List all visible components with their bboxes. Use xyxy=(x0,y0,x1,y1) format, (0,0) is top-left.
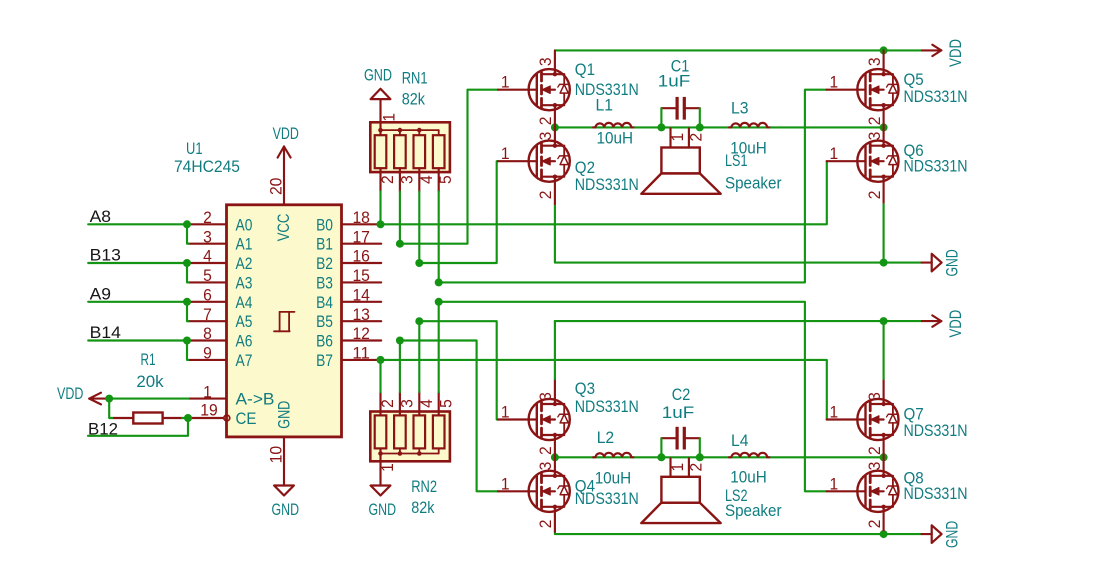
wire B7 net xyxy=(381,360,827,420)
junction node A8 xyxy=(183,220,191,228)
svg-text:3: 3 xyxy=(866,392,884,401)
svg-text:NDS331N: NDS331N xyxy=(904,422,968,440)
svg-text:VDD: VDD xyxy=(57,385,83,403)
svg-text:L1: L1 xyxy=(596,96,614,114)
wire C2 pin1 to rail xyxy=(660,438,662,457)
svg-text:10uH: 10uH xyxy=(595,470,632,488)
svg-text:1: 1 xyxy=(669,463,687,472)
wire B5 net xyxy=(419,321,498,419)
svg-text:3: 3 xyxy=(537,392,555,401)
junction node Q3/Q4 xyxy=(551,453,559,461)
junction node C1 pin1 xyxy=(657,123,665,131)
svg-text:1: 1 xyxy=(830,475,839,493)
svg-text:2: 2 xyxy=(688,463,706,472)
svg-text:2: 2 xyxy=(203,209,212,227)
inductor L1 xyxy=(595,123,631,128)
U1 pin 9 (A7) stub xyxy=(189,359,227,361)
svg-text:1: 1 xyxy=(830,404,839,422)
svg-text:3: 3 xyxy=(399,399,417,408)
svg-text:B2: B2 xyxy=(316,255,333,273)
wire RN2 pin 3 to B6 xyxy=(399,341,401,393)
svg-text:1: 1 xyxy=(380,113,398,122)
RN2 pin 5 stub xyxy=(438,392,440,415)
svg-text:16: 16 xyxy=(352,248,370,266)
wire Q3 drain to rail xyxy=(554,321,556,379)
svg-text:Q1: Q1 xyxy=(575,61,595,79)
svg-text:10: 10 xyxy=(267,446,285,464)
junction node CE xyxy=(184,414,192,422)
junction node GND rail 2 / Q8 source xyxy=(880,530,888,538)
wire A8 to pin 3 xyxy=(187,224,189,243)
svg-text:NDS331N: NDS331N xyxy=(575,398,639,416)
svg-text:A4: A4 xyxy=(236,294,253,312)
junction node B13 xyxy=(183,259,191,267)
junction node C1 pin2 xyxy=(696,123,704,131)
svg-text:1: 1 xyxy=(830,74,839,92)
svg-text:1uF: 1uF xyxy=(658,73,691,91)
wire VDD rail top xyxy=(555,49,922,51)
svg-text:U1: U1 xyxy=(186,140,203,158)
svg-text:13: 13 xyxy=(352,306,370,324)
wire B2 net xyxy=(419,161,498,263)
U1 pin 7 (A5) stub xyxy=(189,320,227,322)
RN1 pin 1 stub xyxy=(379,99,381,135)
wire output rail bottom (LS2 net) xyxy=(555,456,884,458)
svg-text:B1: B1 xyxy=(316,236,333,254)
capacitor C1 xyxy=(661,97,699,120)
wire B14 to pin 9 xyxy=(187,341,189,360)
wire A9 to pin 7 xyxy=(187,302,189,321)
svg-text:15: 15 xyxy=(352,267,370,285)
power symbol GND right top xyxy=(922,262,932,264)
U1 pin 15 (B3) stub xyxy=(342,281,382,283)
svg-text:A6: A6 xyxy=(236,333,253,351)
wire Q7 drain to rail xyxy=(883,321,885,379)
svg-text:3: 3 xyxy=(866,132,884,141)
svg-text:B0: B0 xyxy=(316,216,333,234)
U1 pin 1 (A->B) stub xyxy=(189,398,227,400)
svg-text:GND: GND xyxy=(944,249,962,276)
svg-text:3: 3 xyxy=(866,57,884,66)
svg-text:18: 18 xyxy=(352,209,370,227)
RN1 pin 3 stub xyxy=(399,168,401,191)
U1 pin 14 (B4) stub xyxy=(342,301,382,303)
svg-text:R1: R1 xyxy=(141,351,156,369)
svg-text:3: 3 xyxy=(537,132,555,141)
svg-text:82k: 82k xyxy=(411,499,435,517)
svg-text:Q7: Q7 xyxy=(904,405,924,423)
U1 pin 10 (GND) + GND power symbol xyxy=(283,437,285,486)
svg-text:2: 2 xyxy=(537,117,555,126)
svg-text:NDS331N: NDS331N xyxy=(575,176,639,194)
RN1 pin 4 stub xyxy=(418,168,420,191)
transistor Q1 xyxy=(498,50,570,127)
svg-text:RN2: RN2 xyxy=(411,478,437,496)
speaker LS1 xyxy=(641,128,720,193)
svg-text:2: 2 xyxy=(688,133,706,142)
wire C2 pin2 to rail xyxy=(699,438,701,457)
svg-text:Speaker: Speaker xyxy=(725,174,782,192)
transistor Q7 xyxy=(827,379,899,457)
wire C1 pin2 to rail xyxy=(699,108,701,127)
U1 pin 12 (B6) stub xyxy=(342,339,382,341)
svg-text:4: 4 xyxy=(203,248,212,266)
svg-text:A5: A5 xyxy=(236,313,253,331)
junction node Q5/Q6 xyxy=(880,123,888,131)
svg-text:B5: B5 xyxy=(316,313,333,331)
power symbol GND below RN2 xyxy=(371,486,391,496)
svg-text:NDS331N: NDS331N xyxy=(575,490,639,508)
power symbol VDD right top xyxy=(922,49,941,51)
junction node VDD rail 2 / Q7 drain xyxy=(880,317,888,325)
junction node C2 pin2 xyxy=(696,453,704,461)
wire Q6 source down xyxy=(883,204,885,263)
svg-text:Q5: Q5 xyxy=(904,71,924,89)
speaker LS2 xyxy=(641,458,720,523)
svg-text:1: 1 xyxy=(669,133,687,142)
RN2 pin 2 stub xyxy=(379,392,381,415)
wire VDD rail bottom xyxy=(555,320,922,322)
U1 pin 8 (A6) stub xyxy=(189,339,227,341)
svg-text:A1: A1 xyxy=(236,236,253,254)
svg-text:2: 2 xyxy=(537,446,555,455)
U1 pin 20 (VCC) + VDD power symbol xyxy=(283,147,285,205)
power symbol GND above RN1 xyxy=(379,98,381,100)
wire B14 xyxy=(88,339,188,341)
svg-text:4: 4 xyxy=(418,399,436,408)
svg-text:RN1: RN1 xyxy=(402,70,428,88)
junction node VDD rail / Q5 drain xyxy=(880,46,888,54)
svg-text:L2: L2 xyxy=(597,429,615,447)
svg-text:GND: GND xyxy=(369,501,397,519)
svg-text:NDS331N: NDS331N xyxy=(904,88,968,106)
svg-text:LS1: LS1 xyxy=(725,152,748,170)
svg-text:2: 2 xyxy=(866,520,884,529)
svg-text:2: 2 xyxy=(537,191,555,200)
wire B6 net xyxy=(400,341,498,492)
junction node GND rail / Q6 source xyxy=(880,259,888,267)
svg-text:GND: GND xyxy=(364,66,392,84)
svg-text:A0: A0 xyxy=(236,216,253,234)
svg-text:NDS331N: NDS331N xyxy=(904,485,968,503)
svg-text:VDD: VDD xyxy=(273,125,299,143)
svg-text:5: 5 xyxy=(437,399,455,408)
wire R1 to CE node xyxy=(182,417,188,419)
U1 74HC245 body xyxy=(227,205,342,437)
svg-text:6: 6 xyxy=(203,286,212,304)
junction node C2 pin1 xyxy=(657,453,665,461)
U1 pin 6 (A4) stub xyxy=(189,301,227,303)
svg-text:2: 2 xyxy=(866,117,884,126)
svg-text:1uF: 1uF xyxy=(662,404,695,422)
transistor Q3 xyxy=(498,379,570,457)
svg-text:Q2: Q2 xyxy=(575,159,595,177)
wire RN1 pin 5 to B3 xyxy=(438,192,440,283)
junction node VDD/R1 xyxy=(105,395,113,403)
svg-text:14: 14 xyxy=(352,286,370,304)
svg-text:2: 2 xyxy=(866,191,884,200)
inductor L3 xyxy=(731,123,767,128)
svg-text:1: 1 xyxy=(501,475,510,493)
wire GND rail bottom xyxy=(555,532,922,534)
wire RN1 pin 4 to B2 xyxy=(418,192,420,264)
wire C1 pin1 to rail xyxy=(660,108,662,127)
power symbol VDD left xyxy=(89,398,109,400)
svg-text:GND: GND xyxy=(943,521,961,548)
resistor network RN1 xyxy=(370,122,450,172)
transistor Q4 xyxy=(498,457,570,532)
svg-text:L4: L4 xyxy=(731,432,749,450)
wire RN2 pin 4 to B5 xyxy=(418,321,420,392)
inductor L4 xyxy=(731,453,767,458)
wire GND rail top xyxy=(555,204,922,263)
svg-text:11: 11 xyxy=(352,345,370,363)
svg-text:L3: L3 xyxy=(731,100,749,118)
junction node B0 xyxy=(377,220,385,228)
U1 pin 16 (B2) stub xyxy=(342,262,382,264)
svg-text:GND: GND xyxy=(275,401,293,429)
wire RN2 pin 5 to B4 xyxy=(438,302,440,392)
svg-text:20: 20 xyxy=(267,178,285,196)
transistor Q2 xyxy=(498,127,570,204)
svg-text:1: 1 xyxy=(379,463,397,472)
wire RN1 pin 2 to B0 xyxy=(379,192,381,225)
svg-text:B3: B3 xyxy=(316,275,333,293)
svg-text:8: 8 xyxy=(203,325,212,343)
U1 pin 19 (CE) stub with inversion bubble xyxy=(189,417,224,419)
wire output rail top (LS1 net) xyxy=(555,126,884,128)
RN2 pin 3 stub xyxy=(399,392,401,415)
junction node B6 xyxy=(396,337,404,345)
wire RN2 pin 2 to B7 xyxy=(379,360,381,392)
svg-text:Q3: Q3 xyxy=(575,380,595,398)
svg-text:20k: 20k xyxy=(136,373,164,391)
svg-text:2: 2 xyxy=(866,446,884,455)
wire B13 xyxy=(88,262,188,264)
svg-text:C2: C2 xyxy=(672,386,691,404)
wire VDD to U1 pin 1 xyxy=(109,398,188,400)
wire B0 net xyxy=(381,161,827,224)
svg-text:A2: A2 xyxy=(236,255,253,273)
svg-text:VDD: VDD xyxy=(947,310,965,338)
power symbol VDD right bottom xyxy=(922,320,941,322)
U1 pin 4 (A2) stub xyxy=(189,262,227,264)
junction node Q7/Q8 xyxy=(880,453,888,461)
svg-text:CE: CE xyxy=(236,410,257,428)
junction node B5 xyxy=(415,317,423,325)
wire Q8 source down xyxy=(883,532,885,534)
svg-text:12: 12 xyxy=(352,325,370,343)
svg-text:82k: 82k xyxy=(402,90,426,108)
junction node Q1/Q2 xyxy=(551,123,559,131)
capacitor C2 xyxy=(661,427,699,450)
junction node B14 xyxy=(183,337,191,345)
svg-text:10uH: 10uH xyxy=(730,468,767,486)
wire B12 to CE node xyxy=(88,418,188,436)
svg-text:A3: A3 xyxy=(236,275,253,293)
junction node B1 xyxy=(396,240,404,248)
svg-text:2: 2 xyxy=(379,399,397,408)
svg-text:GND: GND xyxy=(272,501,300,519)
RN2 pin 4 stub xyxy=(418,392,420,415)
svg-text:10uH: 10uH xyxy=(597,129,634,147)
RN1 pin 5 stub xyxy=(438,168,440,191)
U1 pin 17 (B1) stub xyxy=(342,243,382,245)
svg-text:1: 1 xyxy=(501,74,510,92)
svg-text:3: 3 xyxy=(537,462,555,471)
svg-text:4: 4 xyxy=(418,175,436,184)
U1 pin 13 (B5) stub xyxy=(342,320,382,322)
resistor network RN2 xyxy=(370,412,450,462)
svg-text:3: 3 xyxy=(398,175,416,184)
U1 pin 11 (B7) stub xyxy=(342,359,382,361)
U1 pin 2 (A0) stub xyxy=(189,223,227,225)
wire RN1 pin 3 to B1 xyxy=(399,192,401,244)
wire B1 net xyxy=(400,90,498,244)
svg-text:1: 1 xyxy=(501,404,510,422)
U1 pin 3 (A1) stub xyxy=(189,243,227,245)
svg-text:A->B: A->B xyxy=(236,391,275,409)
junction node A9 xyxy=(183,298,191,306)
svg-text:B4: B4 xyxy=(316,294,333,312)
svg-text:A7: A7 xyxy=(236,352,253,370)
power symbol GND right bottom xyxy=(922,533,932,535)
svg-text:1: 1 xyxy=(501,145,510,163)
U1 pin 5 (A3) stub xyxy=(189,281,227,283)
transistor Q5 xyxy=(827,50,899,127)
junction node B7 xyxy=(377,356,385,364)
svg-text:17: 17 xyxy=(352,228,370,246)
junction node B4 xyxy=(435,298,443,306)
svg-text:5: 5 xyxy=(203,267,212,285)
wire A9 xyxy=(88,301,188,303)
svg-text:9: 9 xyxy=(203,345,212,363)
svg-text:VCC: VCC xyxy=(275,213,293,241)
svg-text:Speaker: Speaker xyxy=(725,502,782,520)
resistor R1 xyxy=(114,413,182,424)
wire VDD down to R1 xyxy=(109,399,114,418)
svg-text:19: 19 xyxy=(200,402,218,420)
svg-text:74HC245: 74HC245 xyxy=(174,158,240,176)
svg-text:3: 3 xyxy=(203,228,212,246)
svg-text:B6: B6 xyxy=(316,333,333,351)
svg-text:1: 1 xyxy=(203,383,212,401)
svg-text:B7: B7 xyxy=(316,352,333,370)
svg-text:2: 2 xyxy=(537,520,555,529)
RN1 pin 2 stub xyxy=(379,168,381,191)
wire B4 net xyxy=(439,302,827,492)
inductor L2 xyxy=(595,453,631,458)
svg-text:3: 3 xyxy=(866,462,884,471)
svg-text:NDS331N: NDS331N xyxy=(904,157,968,175)
svg-text:2: 2 xyxy=(379,175,397,184)
svg-text:7: 7 xyxy=(203,306,212,324)
svg-text:1: 1 xyxy=(830,145,839,163)
wire B13 to pin 5 xyxy=(187,263,189,282)
U1 pin 18 (B0) stub xyxy=(342,223,382,225)
transistor Q8 xyxy=(827,457,899,532)
U1 schmitt-trigger symbol xyxy=(274,312,295,331)
wire A8 xyxy=(88,223,188,225)
junction node B3 xyxy=(435,278,443,286)
RN2 pin 1 stub xyxy=(379,448,381,485)
svg-text:5: 5 xyxy=(437,175,455,184)
svg-text:3: 3 xyxy=(537,57,555,66)
wire B3 net xyxy=(439,90,827,283)
svg-text:VDD: VDD xyxy=(947,39,965,67)
junction node B2 xyxy=(415,259,423,267)
transistor Q6 xyxy=(827,127,899,204)
